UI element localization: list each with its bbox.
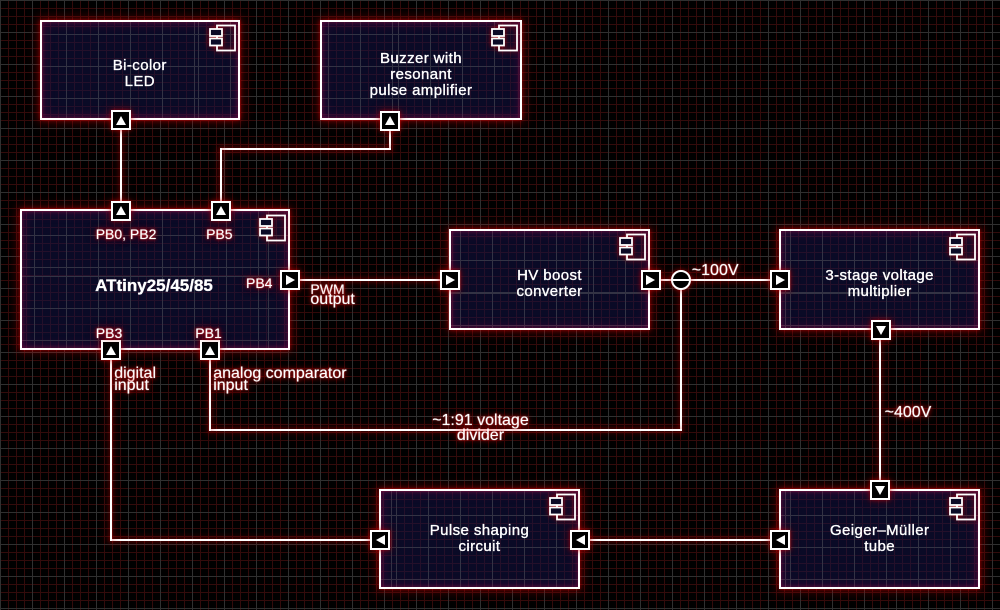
pin label PB3	[96, 326, 122, 340]
label Pulse shaping circuit	[379, 523, 579, 555]
label Bi-color LED	[40, 58, 240, 90]
icon component symbol (Pulse shaping)	[548, 493, 576, 521]
wire pulse shaping to PB3 vertical	[110, 349, 112, 541]
port PB3	[101, 340, 121, 360]
component Buzzer with resonant pulse amplifier	[320, 20, 522, 120]
icon component symbol (ATtiny)	[258, 214, 286, 242]
label Geiger-Muller tube	[779, 523, 980, 555]
port Geiger left output	[770, 530, 790, 550]
icon component symbol (HV boost)	[618, 233, 646, 261]
component Pulse shaping circuit	[379, 489, 579, 589]
component HV boost converter	[449, 229, 650, 330]
pin label PB1	[195, 326, 221, 340]
pin label PB0, PB2	[96, 227, 157, 241]
label 3-stage voltage multiplier	[779, 268, 980, 300]
wire pulse shaping to PB3 horizontal	[110, 539, 382, 541]
port PB5	[211, 201, 231, 221]
port HV boost output	[641, 270, 661, 290]
wire label ~400V	[885, 405, 932, 421]
port HV boost input	[440, 270, 460, 290]
wire label ~100V	[692, 263, 739, 279]
icon component symbol (Bi-color LED)	[208, 24, 236, 52]
wire Geiger to pulse shaping	[579, 539, 781, 541]
wire buzzer drop	[389, 121, 391, 150]
wire 3-stage to Geiger tube ~400V	[879, 329, 881, 491]
pin label PB4	[246, 276, 272, 290]
wire PWM output PB4 to HV boost	[289, 279, 451, 281]
port LED input	[111, 110, 131, 130]
wire LED to PB0/PB2	[120, 120, 122, 210]
wire label ~1:91 voltage divider	[432, 413, 529, 429]
port Geiger top input	[870, 480, 890, 500]
wire voltage divider up to PB1	[209, 349, 211, 431]
wire label analog comparator input	[213, 366, 346, 382]
wire node down	[680, 279, 682, 431]
component Bi-color LED	[40, 20, 240, 120]
port PB1	[200, 340, 220, 360]
icon component symbol (Geiger tube)	[948, 493, 976, 521]
icon component symbol (3-stage)	[948, 233, 976, 261]
label HV boost converter	[449, 268, 650, 300]
wire HV boost to 3-stage multiplier through node	[650, 279, 782, 281]
port pulse shaping input right	[570, 530, 590, 550]
pin label PB5	[206, 227, 232, 241]
wire label PWM output	[310, 282, 344, 296]
port pulse shaping output left	[370, 530, 390, 550]
port 3-stage input	[770, 270, 790, 290]
component Geiger-Muller tube	[779, 489, 980, 589]
wire through node	[673, 279, 689, 281]
wire voltage divider horizontal	[209, 429, 681, 431]
wire buzzer to PB5	[220, 148, 222, 212]
component U1 ATtiny25/45/85	[20, 209, 289, 350]
node ~100V junction	[671, 270, 691, 290]
port buzzer input	[380, 111, 400, 131]
port PB0, PB2	[111, 201, 131, 221]
port PB4	[280, 270, 300, 290]
label Buzzer with resonant pulse amplifier	[320, 51, 522, 99]
label ATtiny25/45/85	[95, 277, 213, 294]
component 3-stage voltage multiplier	[779, 229, 980, 330]
icon component symbol (Buzzer)	[490, 24, 518, 52]
wire buzzer horizontal	[220, 148, 392, 150]
port 3-stage output	[871, 320, 891, 340]
wire label digital input	[114, 366, 156, 382]
